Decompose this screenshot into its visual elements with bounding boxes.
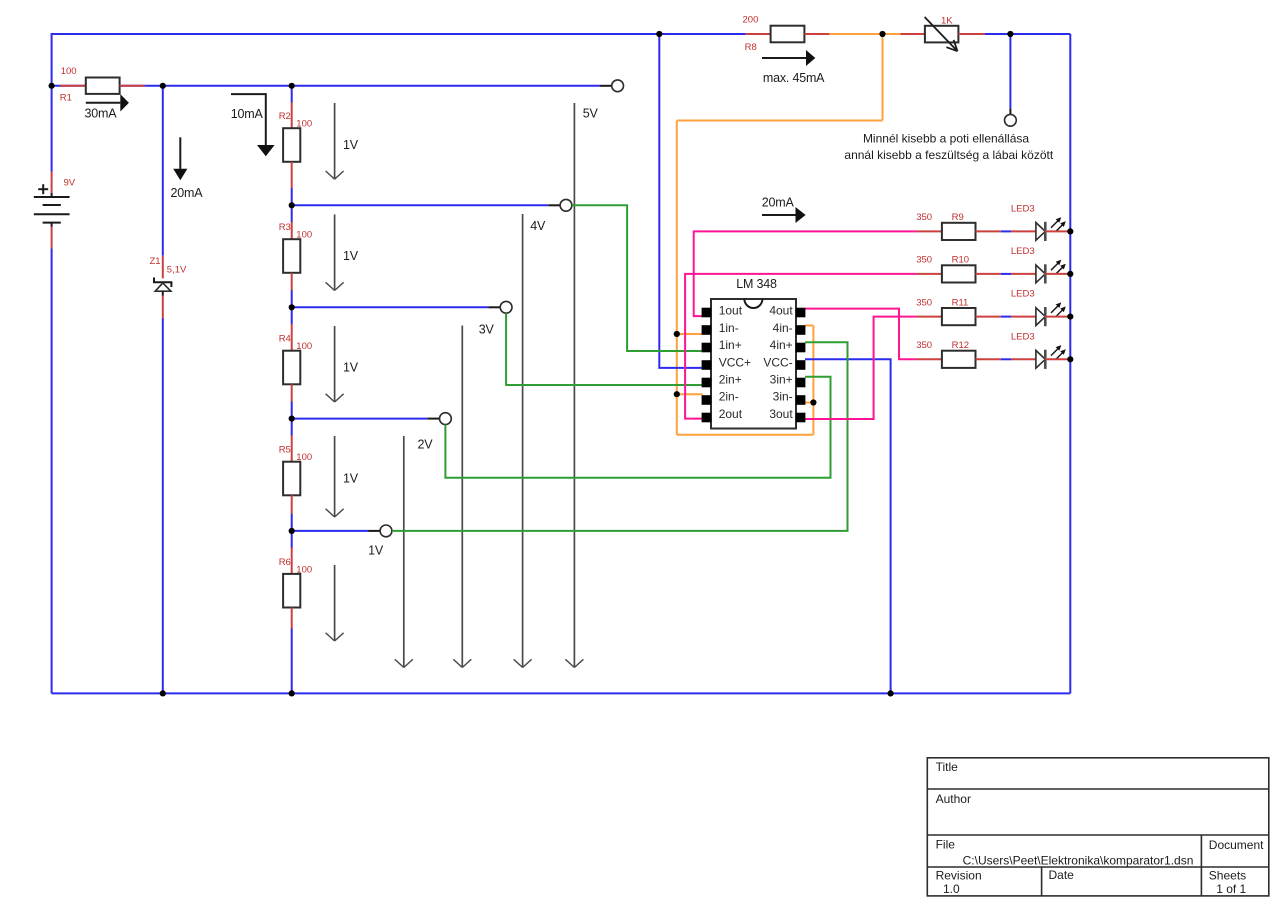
resistor R8 200 (horizontal) — [771, 26, 805, 43]
resistor R4 100 (vertical) — [283, 351, 300, 385]
svg-text:max. 45mA: max. 45mA — [763, 71, 825, 85]
LED D4 cathode lead — [1045, 358, 1070, 360]
LED D2 symbol LED3 — [1036, 265, 1045, 283]
svg-text:20mA: 20mA — [762, 195, 795, 209]
wire orange net vertical at pot — [882, 34, 884, 121]
wire VCC+ blue from top rail — [659, 34, 702, 368]
terminal pot wiper — [1009, 108, 1011, 114]
svg-text:LED3: LED3 — [1011, 289, 1035, 300]
wire orange stub to 1in- — [677, 333, 703, 335]
svg-text:100: 100 — [296, 452, 312, 463]
svg-text:1in-: 1in- — [719, 321, 739, 335]
svg-text:20mA: 20mA — [171, 186, 204, 200]
wire pink 3out to R11 — [805, 317, 916, 419]
resistor R12 right lead — [976, 358, 1001, 360]
voltage drop arrow 1V at R3 — [334, 214, 336, 290]
IC pin left 1in- — [702, 325, 712, 335]
junction LED3 to right rail — [1067, 314, 1073, 320]
wire orange net vertical right of IC — [812, 326, 814, 435]
wire pink 4out to R12 — [805, 309, 916, 360]
op-amp IC U1 LM348 body — [711, 299, 796, 429]
resistor R11 right lead — [976, 316, 1001, 318]
resistor R11 350 (horizontal) — [942, 308, 976, 325]
tap wire 2V — [292, 418, 428, 420]
wire resistor R3 bottom lead to node — [291, 273, 293, 291]
wire node to resistor R4 top lead — [291, 307, 293, 324]
LED D2 anode lead — [1011, 273, 1036, 275]
wire zener branch upper — [162, 86, 164, 256]
junction ground ladder — [289, 690, 295, 696]
potentiometer P1 right lead — [958, 33, 985, 35]
terminal 4V — [560, 199, 572, 211]
resistor R8 right lead — [804, 33, 829, 35]
current arrow 20mA outputs — [762, 214, 796, 216]
svg-text:R10: R10 — [952, 255, 969, 266]
resistor R9 right lead — [976, 230, 1001, 232]
IC pin right 3in+ — [796, 378, 806, 388]
wire top rail battery+ to R8 — [52, 33, 746, 35]
IC pin right 3in- — [796, 395, 806, 405]
battery B1 plates — [34, 196, 70, 198]
LED D3 anode lead — [1011, 316, 1036, 318]
svg-text:9V: 9V — [64, 178, 76, 189]
IC pin right 4in+ — [796, 343, 806, 353]
voltage drop arrow 1V at R2 — [334, 103, 336, 179]
svg-text:R3: R3 — [279, 222, 291, 233]
LED D1 symbol LED3 — [1036, 223, 1045, 241]
junction top rail VCC+ — [656, 31, 662, 37]
potentiometer P1 arrow — [925, 17, 958, 51]
resistor R5 100 (vertical) — [283, 462, 300, 496]
resistor R11 left lead — [916, 316, 942, 318]
wire blue stub LED3 — [1001, 316, 1011, 318]
wire blue stub LED2 — [1001, 273, 1011, 275]
junction orange 2in- — [674, 391, 680, 397]
svg-text:Sheets: Sheets — [1209, 869, 1246, 883]
zener diode Z1 symbol — [154, 278, 171, 288]
svg-text:3V: 3V — [479, 323, 495, 337]
wire pot wiper terminal drop — [1009, 34, 1011, 108]
resistor R1 left lead — [60, 85, 86, 87]
title block row line 1 — [927, 788, 1269, 790]
IC pin left 2in- — [702, 395, 712, 405]
svg-text:Author: Author — [936, 792, 971, 806]
svg-text:R9: R9 — [952, 212, 964, 223]
wire orange net bottom under IC — [677, 434, 814, 436]
LED D4 symbol LED3 — [1036, 350, 1045, 368]
svg-text:Date: Date — [1049, 868, 1075, 882]
svg-text:Document: Document — [1209, 838, 1264, 852]
svg-text:1V: 1V — [343, 249, 359, 263]
LED D3 emission arrows — [1051, 305, 1063, 317]
measure arrow 2V — [403, 436, 405, 668]
svg-text:1V: 1V — [368, 544, 384, 558]
resistor R10 right lead — [976, 273, 1001, 275]
IC pin left 2out — [702, 413, 712, 423]
terminal 1V — [380, 525, 392, 537]
wire left rail vertical battery+ — [51, 33, 53, 172]
tap wire 4V — [292, 204, 549, 206]
junction LED2 to right rail — [1067, 271, 1073, 277]
svg-text:annál kisebb a feszültség a lá: annál kisebb a feszültség a lábai között — [844, 148, 1053, 162]
wire node to resistor R3 top lead — [291, 205, 293, 222]
wire green 2V to 3in+ — [445, 377, 830, 478]
svg-text:R6: R6 — [279, 557, 291, 568]
LED D3 symbol LED3 — [1036, 308, 1045, 326]
IC pin left 2in+ — [702, 378, 712, 388]
zener diode Z1 top lead — [162, 256, 164, 279]
title block row line 2 — [927, 834, 1269, 836]
LED D4 anode lead — [1011, 358, 1036, 360]
svg-text:Minnél kisebb a poti ellenállá: Minnél kisebb a poti ellenállása — [863, 131, 1029, 145]
svg-text:VCC-: VCC- — [763, 355, 792, 369]
svg-text:1.0: 1.0 — [943, 882, 960, 896]
junction top rail pot wiper — [1007, 31, 1013, 37]
zener diode Z1 bottom lead — [162, 295, 164, 318]
svg-text:Title: Title — [936, 760, 959, 774]
voltage drop arrow 1V at R6 — [334, 565, 336, 641]
svg-text:4V: 4V — [530, 219, 546, 233]
LED D1 emission arrows — [1051, 220, 1063, 232]
wire bottom ground rail — [52, 692, 1071, 694]
terminal 5V — [612, 80, 624, 92]
svg-text:R1: R1 — [60, 93, 72, 104]
wire orange net horizontal to IC — [677, 120, 883, 122]
junction ground VCC- — [888, 690, 894, 696]
wire resistor R5 bottom lead to node — [291, 495, 293, 514]
wire zener branch lower — [162, 318, 164, 693]
LED D1 anode lead — [1011, 230, 1036, 232]
battery B1 9V top lead — [51, 172, 53, 194]
wire resistor R4 bottom lead to node — [291, 384, 293, 402]
wire pot right lead to right rail corner — [985, 33, 1071, 35]
wire orange reference net top segment — [829, 33, 901, 35]
svg-text:5V: 5V — [583, 107, 599, 121]
wire resistor R2 bottom lead to node — [291, 162, 293, 189]
IC pin left VCC+ — [702, 360, 712, 370]
svg-text:100: 100 — [296, 564, 312, 575]
svg-text:1in+: 1in+ — [719, 338, 742, 352]
svg-text:R5: R5 — [279, 445, 291, 456]
potentiometer P1 1K body — [925, 26, 959, 43]
svg-text:100: 100 — [296, 341, 312, 352]
terminal 2V — [440, 413, 452, 425]
junction orange 3in- — [810, 399, 816, 405]
svg-text:10mA: 10mA — [231, 107, 264, 121]
junction ladder top — [289, 83, 295, 89]
junction battery+/R1 — [49, 83, 55, 89]
svg-text:1out: 1out — [719, 304, 743, 318]
wire blue stub LED4 — [1001, 358, 1011, 360]
svg-text:4in-: 4in- — [773, 321, 793, 335]
junction R1/zener — [160, 83, 166, 89]
svg-text:Revision: Revision — [936, 869, 982, 883]
resistor R2 100 (vertical) — [283, 128, 300, 162]
svg-text:200: 200 — [743, 15, 759, 26]
wire blue stub LED1 — [1001, 230, 1011, 232]
resistor R3 100 (vertical) — [283, 239, 300, 273]
LED D2 cathode lead — [1045, 273, 1070, 275]
measure arrow 3V — [461, 326, 463, 668]
IC pin right 4out — [796, 308, 806, 318]
svg-text:R4: R4 — [279, 334, 291, 345]
resistor R6 100 (vertical) — [283, 574, 300, 608]
wire orange net vertical left of IC — [676, 121, 678, 435]
title block divider document — [1200, 835, 1202, 896]
resistor R9 left lead — [916, 230, 942, 232]
svg-text:350: 350 — [916, 340, 932, 351]
IC pin right VCC- — [796, 360, 806, 370]
tap wire 3V — [292, 306, 489, 308]
svg-text:File: File — [936, 838, 956, 852]
wire node to resistor R5 top lead — [291, 419, 293, 436]
title block row line 3 — [927, 866, 1269, 868]
svg-text:1K: 1K — [941, 15, 953, 26]
svg-text:5,1V: 5,1V — [167, 264, 187, 275]
svg-text:30mA: 30mA — [85, 106, 118, 120]
wire battery- down left rail — [51, 248, 53, 693]
wire green 1V to 4in+ — [392, 342, 848, 531]
junction orange 1in- — [674, 331, 680, 337]
wire R1 row / 5V rail horizontal — [52, 85, 601, 87]
wire orange stub to 4in- — [805, 325, 813, 327]
IC pin right 4in- — [796, 325, 806, 335]
svg-text:3in-: 3in- — [773, 390, 793, 404]
svg-text:1V: 1V — [343, 472, 359, 486]
svg-text:3out: 3out — [769, 407, 793, 421]
resistor R12 left lead — [916, 358, 942, 360]
svg-text:R8: R8 — [745, 42, 757, 53]
resistor R9 350 (horizontal) — [942, 223, 976, 240]
wire right rail vertical (LED cathodes to ground) — [1069, 34, 1071, 693]
tap wire 5V — [600, 85, 612, 87]
junction ground zener — [160, 690, 166, 696]
LED D4 emission arrows — [1051, 348, 1063, 360]
voltage drop arrow 1V at R4 — [334, 326, 336, 402]
svg-text:3in+: 3in+ — [770, 373, 793, 387]
svg-text:2in-: 2in- — [719, 390, 739, 404]
svg-text:VCC+: VCC+ — [719, 355, 751, 369]
junction LED1 to right rail — [1067, 228, 1073, 234]
IC pin left 1out — [702, 308, 712, 318]
IC pin right 3out — [796, 413, 806, 423]
svg-text:1V: 1V — [343, 361, 359, 375]
svg-text:1 of 1: 1 of 1 — [1216, 882, 1246, 896]
svg-text:350: 350 — [916, 297, 932, 308]
svg-text:2in+: 2in+ — [719, 373, 742, 387]
measure arrow 5V — [573, 103, 575, 668]
junction 4V node — [289, 202, 295, 208]
resistor R1 right lead — [120, 85, 145, 87]
svg-text:100: 100 — [61, 66, 77, 77]
wire green 3V to 2in+ — [506, 313, 702, 385]
wire pink 1out to R9 — [694, 231, 917, 316]
svg-text:100: 100 — [296, 230, 312, 241]
LED D3 cathode lead — [1045, 316, 1070, 318]
wire green 4V to 1in+ — [572, 205, 703, 351]
title block divider date — [1041, 867, 1043, 896]
wire orange stub to 3in- — [805, 402, 813, 404]
resistor R8 left lead — [746, 33, 771, 35]
IC pin left 1in+ — [702, 343, 712, 353]
svg-text:LED3: LED3 — [1011, 331, 1035, 342]
svg-text:C:\Users\Peet\Elektronika\komp: C:\Users\Peet\Elektronika\komparator1.ds… — [963, 854, 1194, 868]
title block frame — [927, 758, 1269, 896]
wire pink 2out to R10 — [685, 274, 916, 419]
current arrow 20mA zener branch — [179, 137, 181, 169]
junction top rail orange ref — [879, 31, 885, 37]
measure arrow 4V — [522, 214, 524, 668]
junction 1V node — [289, 528, 295, 534]
LED D2 emission arrows — [1051, 263, 1063, 275]
junction 2V node — [289, 416, 295, 422]
svg-text:350: 350 — [916, 212, 932, 223]
current arrow max. 45mA — [762, 57, 806, 59]
svg-text:2out: 2out — [719, 407, 743, 421]
junction LED4 to right rail — [1067, 356, 1073, 362]
svg-text:R12: R12 — [952, 340, 969, 351]
svg-text:4out: 4out — [769, 304, 793, 318]
svg-text:100: 100 — [296, 119, 312, 130]
current arrow 10mA — [231, 94, 266, 145]
tap wire 1V — [292, 530, 368, 532]
svg-text:1V: 1V — [343, 138, 359, 152]
battery B1 bottom lead — [51, 223, 53, 227]
resistor R1 100 (horizontal) — [86, 78, 120, 94]
svg-text:LED3: LED3 — [1011, 246, 1035, 257]
wire VCC- blue to ground rail — [805, 359, 891, 693]
terminal 3V — [500, 301, 512, 313]
resistor R10 left lead — [916, 273, 942, 275]
svg-text:2V: 2V — [418, 438, 434, 452]
wire orange stub to 2in- — [677, 393, 703, 395]
svg-text:350: 350 — [916, 255, 932, 266]
resistor R12 350 (horizontal) — [942, 351, 976, 368]
wire node to resistor R6 top lead — [291, 531, 293, 548]
svg-text:4in+: 4in+ — [770, 338, 793, 352]
svg-text:R11: R11 — [952, 297, 969, 308]
resistor R10 350 (horizontal) — [942, 265, 976, 282]
svg-text:R2: R2 — [279, 111, 291, 122]
svg-text:Z1: Z1 — [150, 256, 161, 267]
svg-text:LED3: LED3 — [1011, 203, 1035, 214]
voltage drop arrow 1V at R5 — [334, 436, 336, 517]
wire resistor R6 bottom lead to node — [291, 608, 293, 630]
current arrow 30mA — [86, 102, 121, 104]
svg-text:LM 348: LM 348 — [736, 277, 777, 291]
wire node to resistor R2 top lead — [291, 86, 293, 103]
potentiometer P1 left lead — [901, 33, 925, 35]
battery B1 plus sign — [38, 188, 48, 190]
LED D1 cathode lead — [1045, 230, 1070, 232]
junction 3V node — [289, 304, 295, 310]
